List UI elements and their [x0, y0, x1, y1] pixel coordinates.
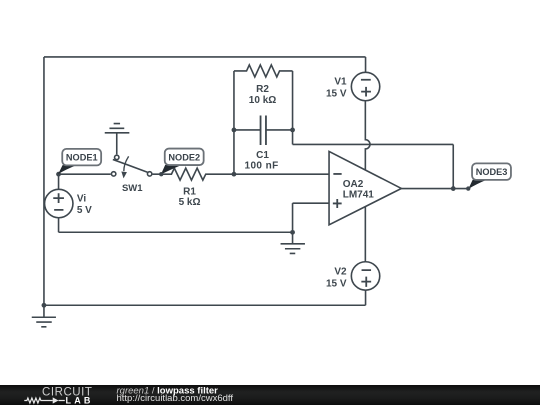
wire top rail — [44, 56, 366, 58]
junction inverting input — [232, 172, 237, 177]
svg-text:R1: R1 — [183, 186, 196, 197]
label R1 value — [179, 186, 201, 208]
svg-text:15 V: 15 V — [326, 278, 347, 289]
svg-text:http://circuitlab.com/cwx6dff: http://circuitlab.com/cwx6dff — [117, 393, 234, 404]
voltage source V1 — [351, 72, 379, 100]
svg-text:C1: C1 — [256, 150, 269, 161]
svg-text:5 V: 5 V — [77, 205, 92, 216]
svg-text:LM741: LM741 — [343, 190, 375, 201]
wire V2 bottom lead — [365, 290, 367, 305]
label V1 value — [326, 77, 347, 100]
wire bottom rail — [44, 304, 366, 306]
wire Vi top lead — [58, 174, 60, 189]
svg-text:NODE1: NODE1 — [66, 153, 98, 163]
svg-text:100 nF: 100 nF — [245, 161, 279, 172]
svg-text:V1: V1 — [334, 77, 347, 88]
capacitor C1 — [234, 115, 293, 144]
wire feedback left vertical — [233, 71, 235, 174]
resistor R2 — [234, 65, 293, 77]
junction bottom left ground — [42, 303, 47, 308]
wire inverting input — [234, 173, 329, 175]
voltage source V2 — [351, 262, 379, 290]
logo resistor-diode glyph — [24, 397, 65, 404]
svg-text:15 V: 15 V — [326, 89, 347, 100]
svg-text:Vi: Vi — [77, 193, 86, 204]
wire op-amp output — [401, 188, 468, 190]
ground above switch (flipped) — [105, 124, 130, 133]
wire non-inverting input — [59, 203, 330, 232]
wire feedback right vertical — [292, 71, 294, 144]
svg-text:V2: V2 — [334, 267, 347, 278]
junction C1 left — [232, 128, 237, 133]
wire op-amp V- pin to V2 — [364, 206, 366, 261]
svg-text:LAB: LAB — [66, 396, 94, 405]
svg-text:OA2: OA2 — [343, 179, 364, 190]
node NODE3 flag — [466, 163, 511, 190]
ground middle (below non-inverting input) — [281, 232, 305, 253]
wire right vertical to output — [452, 144, 454, 188]
junction node NODE1 tap — [56, 172, 61, 177]
label Vi value — [77, 193, 92, 216]
wire V1 bottom to op-amp V+ pin with hop over feedback wire — [365, 101, 370, 170]
wire feedback horizontal — [293, 143, 454, 145]
node NODE2 flag — [159, 149, 204, 177]
svg-text:SW1: SW1 — [122, 183, 143, 194]
footer bar — [0, 385, 540, 405]
label OA2 value — [343, 179, 375, 201]
node NODE1 flag — [58, 149, 101, 174]
wire Vi bottom lead — [58, 218, 60, 233]
junction C1 right — [290, 128, 295, 133]
junction non-inverting ground — [290, 230, 295, 235]
switch SW1 — [111, 133, 151, 179]
svg-text:10 kΩ: 10 kΩ — [249, 95, 276, 106]
svg-text:R2: R2 — [256, 84, 269, 95]
junction output — [451, 186, 456, 191]
wire NODE1 to switch — [59, 173, 111, 175]
ground bottom left — [32, 305, 56, 327]
svg-text:NODE3: NODE3 — [476, 167, 508, 177]
label V2 value — [326, 267, 347, 290]
label R2 value — [249, 84, 276, 106]
voltage source Vi — [45, 189, 73, 217]
svg-text:5 kΩ: 5 kΩ — [179, 197, 201, 208]
wire V1 top lead — [365, 57, 367, 72]
svg-text:NODE2: NODE2 — [168, 152, 200, 162]
label C1 value — [245, 150, 279, 172]
wire left border — [43, 57, 45, 305]
op-amp OA2 — [329, 151, 401, 224]
resistor R1 — [153, 168, 234, 180]
